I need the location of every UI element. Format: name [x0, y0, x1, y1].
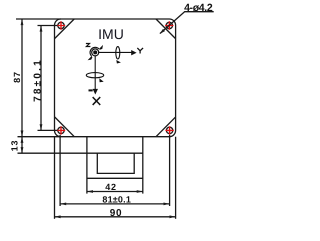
svg-text:4-ø4.2: 4-ø4.2	[184, 2, 213, 14]
svg-text:87: 87	[12, 71, 22, 83]
svg-text:90: 90	[110, 208, 123, 219]
svg-text:IMU: IMU	[98, 26, 124, 42]
svg-text:13: 13	[10, 140, 20, 152]
svg-text:42: 42	[105, 182, 117, 192]
svg-text:81±0.1: 81±0.1	[102, 195, 131, 205]
svg-text:78±0.1: 78±0.1	[33, 58, 44, 102]
